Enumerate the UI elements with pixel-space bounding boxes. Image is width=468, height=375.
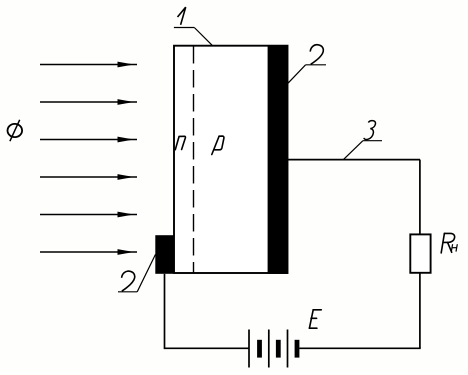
light flux arrow 5 <box>40 212 137 218</box>
battery E (3 cells) <box>249 330 299 368</box>
resistor RH <box>410 234 430 272</box>
wire (resistor to bottom-right corner) <box>419 273 421 349</box>
label 2 (bottom electrode) with leader <box>118 254 156 291</box>
label 3 with leader <box>343 121 382 160</box>
electrode 2 (right, solid black) <box>268 45 288 274</box>
wire (bottom right, battery to corner) <box>299 347 420 349</box>
wire (bottom left, electrode to battery) <box>165 347 250 349</box>
light flux arrow 4 <box>40 174 137 180</box>
label RH <box>441 233 454 253</box>
p-n junction (dashed line) <box>193 46 195 273</box>
wire 3 (electrode to resistor, top) <box>288 159 421 161</box>
label p (p-region) <box>212 136 224 154</box>
light flux arrow 3 <box>40 137 137 143</box>
light flux arrow 1 <box>40 62 137 68</box>
wire (left side, electrode down) <box>164 274 166 349</box>
label Phi (light flux) <box>8 120 23 141</box>
label 1 with leader <box>174 7 212 45</box>
label n (n-region) <box>175 136 185 149</box>
light flux arrow 2 <box>40 99 137 105</box>
label 2 (right electrode) with leader <box>288 45 326 83</box>
label E <box>309 310 321 328</box>
wire (right side, down to resistor) <box>419 160 421 235</box>
electrode 2 (bottom-left, solid black) <box>155 235 173 274</box>
light flux arrow 6 <box>40 249 137 255</box>
photodiode body (semiconductor crystal) <box>174 46 288 273</box>
